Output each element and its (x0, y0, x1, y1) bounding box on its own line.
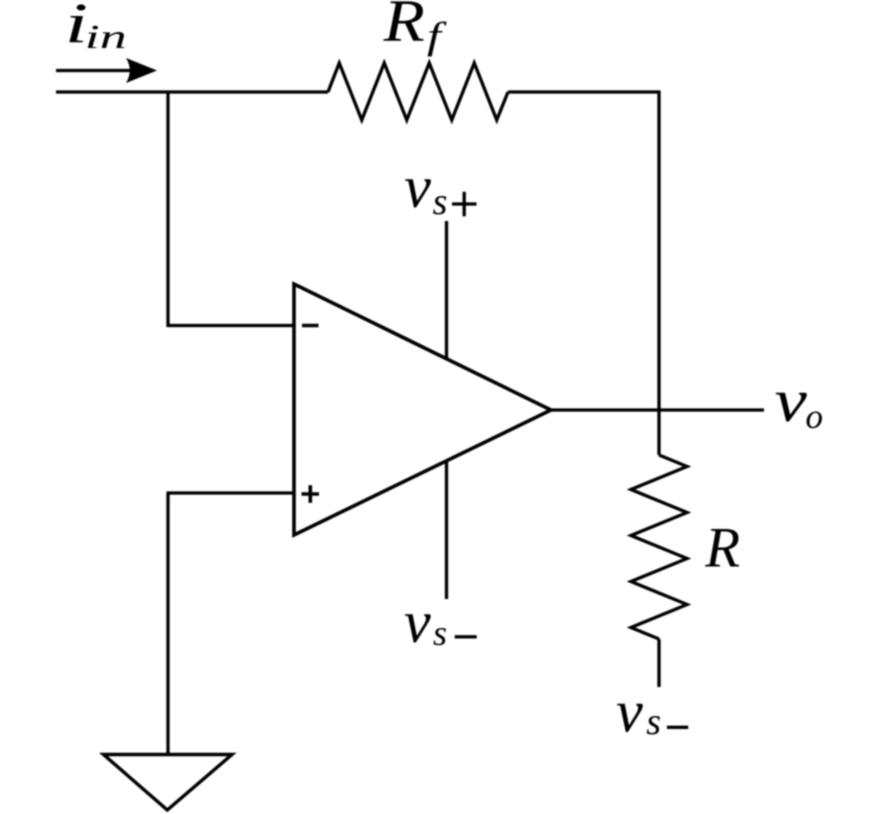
wire: right vertical from Rf down to resistor R (657, 91, 660, 456)
op-amp U1 (294, 284, 551, 535)
wire: non-inverting input down to ground (166, 493, 169, 754)
resistor Rf (328, 63, 508, 120)
svg-text:v: v (404, 154, 431, 220)
label vo (output) (775, 368, 823, 436)
op-amp minus pin marker (302, 324, 319, 328)
svg-text:in: in (85, 19, 127, 56)
wire: input node to resistor Rf (56, 90, 328, 93)
svg-text:o: o (806, 397, 824, 436)
wire: resistor Rf to right vertical (508, 90, 661, 93)
wire: resistor R to vs- terminal (657, 639, 660, 687)
label vs- (negative supply, bottom right) (616, 679, 661, 745)
current arrow i_in (56, 58, 157, 83)
svg-text:s: s (433, 613, 447, 653)
svg-text:f: f (427, 15, 448, 57)
resistor R (631, 455, 687, 639)
wire: inverting input horizontal (167, 324, 295, 327)
ground (104, 755, 233, 811)
svg-text:s: s (646, 701, 661, 743)
wire: op-amp output to vo terminal (551, 408, 764, 411)
wire: left vertical from input node down to inverting input (166, 92, 169, 327)
label vs+ (positive supply) (404, 154, 447, 223)
op-amp plus pin marker (302, 485, 320, 503)
svg-text:R: R (704, 517, 740, 580)
svg-text:v: v (775, 368, 808, 435)
svg-text:v: v (616, 679, 643, 745)
wire: negative supply vs- from op-amp bottom (445, 461, 448, 599)
wire: positive supply vs+ into op-amp top (445, 221, 448, 358)
label Rf (383, 0, 448, 57)
wire: non-inverting input horizontal (167, 491, 295, 494)
svg-text:v: v (404, 589, 431, 655)
svg-text:s: s (433, 181, 448, 223)
svg-text:R: R (383, 0, 425, 54)
label i_in (65, 0, 127, 56)
label vs- (negative supply, below op-amp) (404, 589, 447, 655)
